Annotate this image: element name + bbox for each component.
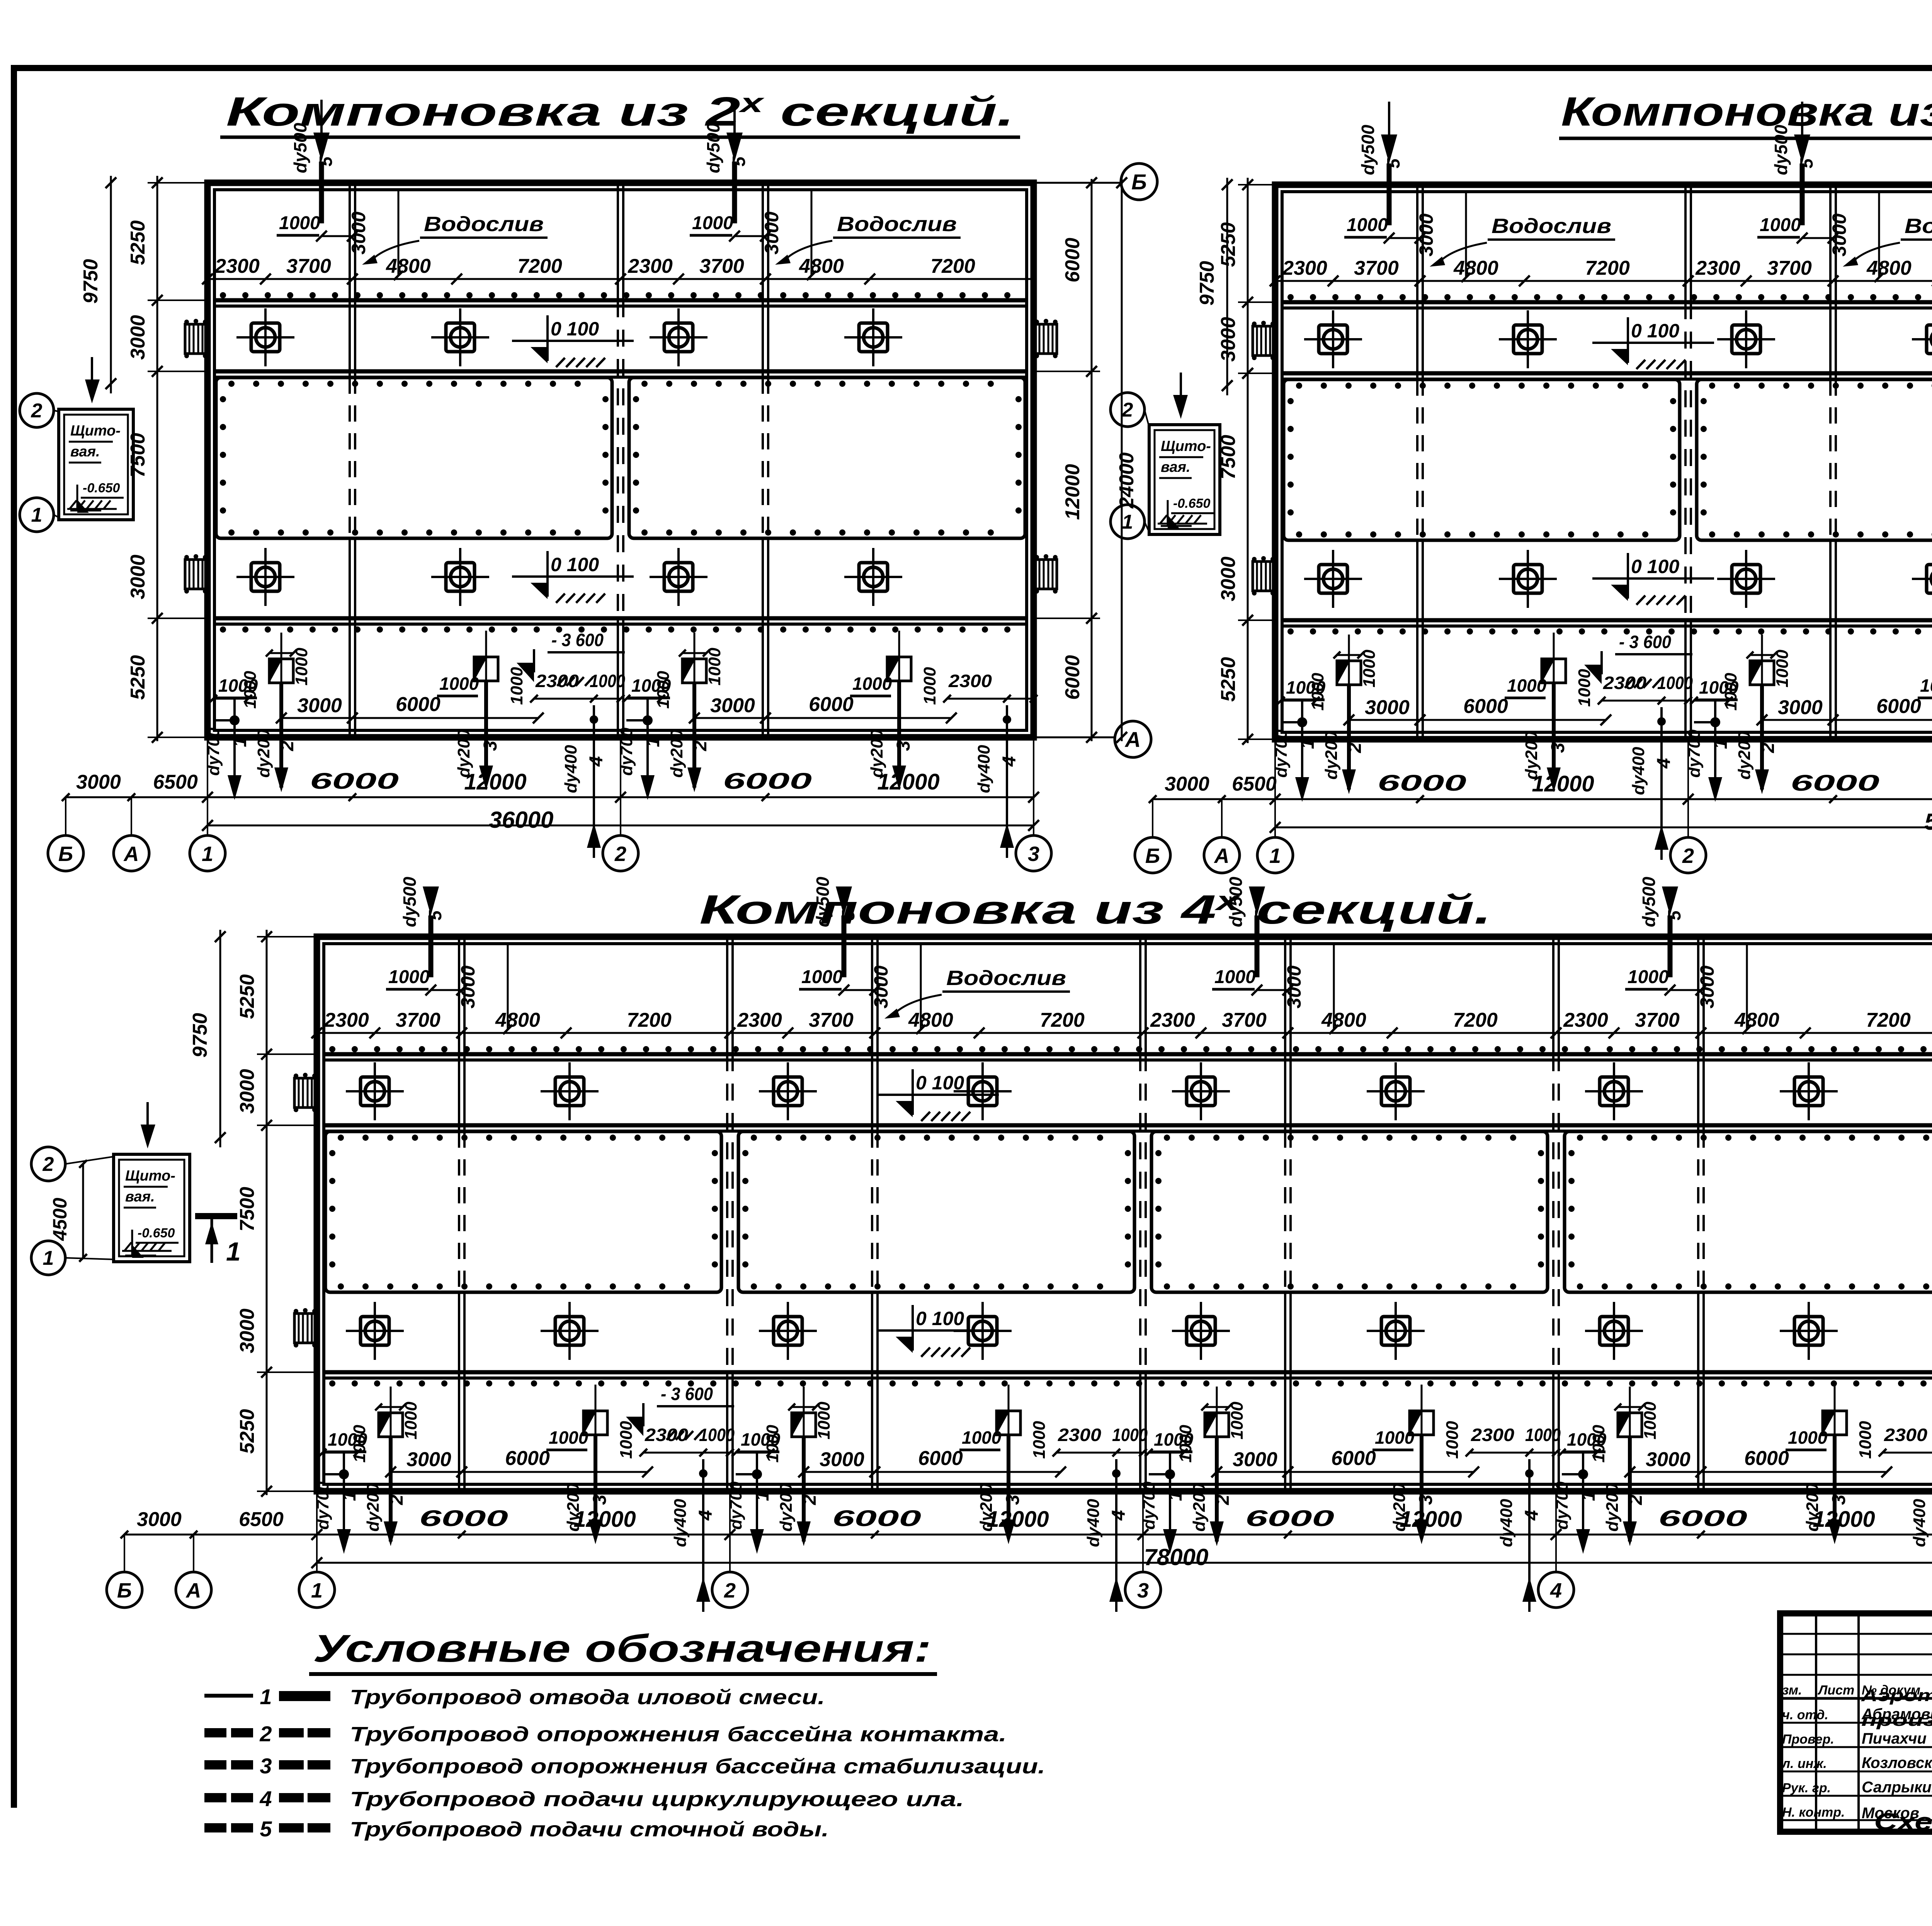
svg-text:2300: 2300: [1282, 257, 1327, 279]
svg-text:6000: 6000: [1876, 695, 1921, 718]
svg-text:5: 5: [1383, 158, 1403, 168]
svg-text:4800: 4800: [386, 255, 431, 277]
svg-text:1000: 1000: [962, 1427, 1002, 1448]
svg-text:3: 3: [1829, 1494, 1849, 1505]
svg-text:1000: 1000: [1030, 1421, 1049, 1459]
svg-text:3000: 3000: [761, 211, 782, 254]
svg-text:5250: 5250: [127, 220, 149, 265]
svg-text:производительностью 17÷40 тыс.: производительностью 17÷40 тыс. м: [1861, 1711, 1932, 1730]
svg-text:1: 1: [260, 1684, 272, 1709]
svg-text:Компоновка из 3х секций.: Компоновка из 3х секций.: [1561, 88, 1932, 134]
svg-text:3000: 3000: [236, 1308, 259, 1353]
svg-text:3000: 3000: [127, 315, 149, 360]
svg-text:3000: 3000: [236, 1069, 259, 1114]
svg-text:3000: 3000: [1217, 317, 1240, 362]
svg-text:1: 1: [311, 1579, 323, 1602]
svg-text:4: 4: [1109, 1510, 1129, 1521]
svg-text:3000: 3000: [127, 555, 149, 599]
svg-text:вая.: вая.: [125, 1189, 155, 1205]
svg-text:А: А: [185, 1579, 201, 1602]
svg-text:Схемы компоновок: Схемы компоновок: [1874, 1809, 1932, 1835]
svg-text:Трубопровод подачи циркулиру: Трубопровод подачи циркулирующего ила.: [350, 1788, 964, 1811]
svg-text:-0.650: -0.650: [1173, 496, 1210, 511]
svg-text:dy200: dy200: [1190, 1483, 1209, 1531]
svg-text:6000: 6000: [1791, 771, 1879, 796]
svg-text:4800: 4800: [1866, 257, 1912, 279]
svg-text:3700: 3700: [396, 1009, 440, 1031]
svg-text:2300: 2300: [1695, 257, 1740, 279]
svg-text:2: 2: [259, 1722, 272, 1746]
svg-text:3: 3: [480, 740, 501, 751]
svg-text:2300: 2300: [628, 255, 673, 277]
svg-text:1: 1: [1269, 844, 1281, 868]
svg-text:3: 3: [1416, 1494, 1436, 1505]
svg-text:2: 2: [1758, 742, 1778, 753]
svg-text:Лист: Лист: [1817, 1683, 1854, 1698]
svg-text:7200: 7200: [1040, 1009, 1085, 1031]
svg-text:1000: 1000: [549, 1427, 588, 1448]
svg-text:12000: 12000: [1061, 464, 1084, 520]
svg-text:9750: 9750: [189, 1013, 211, 1058]
svg-text:Н. контр.: Н. контр.: [1782, 1805, 1845, 1820]
svg-text:6000: 6000: [723, 769, 812, 794]
svg-text:1: 1: [1298, 739, 1318, 749]
svg-text:1000: 1000: [1628, 967, 1669, 987]
svg-text:Компоновка из 2х секций.: Компоновка из 2х секций.: [226, 88, 1014, 134]
svg-text:1000: 1000: [292, 648, 311, 686]
svg-text:dy200: dy200: [1735, 731, 1754, 779]
svg-text:3000: 3000: [820, 1448, 864, 1471]
svg-text:3000: 3000: [457, 965, 479, 1008]
svg-text:2: 2: [277, 740, 298, 751]
svg-text:1: 1: [752, 1491, 773, 1501]
svg-text:Водослив: Водослив: [837, 213, 957, 236]
svg-text:1000: 1000: [705, 648, 724, 686]
svg-text:1000: 1000: [439, 674, 479, 694]
svg-text:6000: 6000: [310, 769, 399, 794]
svg-text:dy500: dy500: [400, 876, 420, 927]
svg-text:1000: 1000: [507, 667, 526, 705]
svg-text:Щито-: Щито-: [70, 423, 121, 439]
svg-text:Трубопровод опорожнения басс: Трубопровод опорожнения бассейна контакт…: [350, 1723, 1007, 1746]
svg-text:3000: 3000: [297, 694, 342, 717]
svg-text:6500: 6500: [153, 771, 198, 793]
svg-text:3: 3: [1028, 842, 1039, 866]
svg-text:dy400: dy400: [975, 745, 993, 793]
svg-text:6000: 6000: [419, 1506, 508, 1531]
svg-text:2: 2: [43, 1153, 54, 1176]
svg-text:3000: 3000: [76, 771, 121, 793]
svg-text:7200: 7200: [627, 1009, 672, 1031]
svg-text:3700: 3700: [1222, 1009, 1267, 1031]
svg-text:- 3 600: - 3 600: [1619, 632, 1671, 652]
svg-text:2: 2: [1626, 1494, 1646, 1505]
svg-text:12000: 12000: [877, 769, 939, 795]
svg-text:3: 3: [1137, 1579, 1149, 1602]
svg-text:1000: 1000: [699, 1425, 735, 1445]
svg-text:Водослив: Водослив: [946, 966, 1066, 990]
svg-text:36000: 36000: [489, 807, 554, 833]
svg-text:5250: 5250: [127, 655, 149, 700]
svg-text:Водослив: Водослив: [424, 213, 544, 236]
svg-text:4: 4: [1654, 758, 1674, 769]
svg-text:7200: 7200: [1866, 1009, 1911, 1031]
svg-text:6000: 6000: [1463, 695, 1508, 718]
svg-text:6000: 6000: [1245, 1506, 1334, 1531]
svg-text:dy400: dy400: [1497, 1499, 1516, 1547]
svg-text:1: 1: [202, 842, 213, 866]
svg-text:А: А: [1214, 844, 1230, 868]
svg-text:1000: 1000: [1228, 1402, 1247, 1439]
svg-text:1000: 1000: [692, 213, 733, 233]
svg-text:1: 1: [643, 737, 663, 747]
svg-text:1000: 1000: [801, 967, 843, 987]
svg-text:3000: 3000: [870, 965, 892, 1008]
svg-text:Условные обозначения:: Условные обозначения:: [313, 1627, 931, 1670]
svg-text:1000: 1000: [654, 671, 673, 709]
svg-text:- 3 600: - 3 600: [661, 1384, 713, 1404]
svg-text:dy200: dy200: [667, 729, 686, 778]
svg-text:dy200: dy200: [364, 1483, 383, 1531]
svg-text:Водослив: Водослив: [1905, 214, 1932, 238]
svg-text:3: 3: [1548, 742, 1568, 753]
svg-text:3700: 3700: [1354, 257, 1399, 279]
svg-text:dy500: dy500: [1639, 876, 1659, 927]
svg-text:1000: 1000: [1920, 675, 1932, 696]
svg-text:1000: 1000: [350, 1425, 369, 1463]
svg-text:0 100: 0 100: [551, 318, 599, 340]
svg-text:6500: 6500: [239, 1508, 284, 1531]
svg-text:вая.: вая.: [70, 444, 100, 460]
svg-text:12000: 12000: [1813, 1507, 1875, 1532]
svg-text:2: 2: [1345, 742, 1365, 753]
svg-text:dy400: dy400: [1910, 1499, 1929, 1547]
svg-text:1000: 1000: [1641, 1402, 1660, 1439]
svg-text:7500: 7500: [127, 433, 149, 478]
svg-text:4500: 4500: [49, 1198, 71, 1241]
svg-text:2300: 2300: [1884, 1425, 1928, 1445]
svg-text:1000: 1000: [1443, 1421, 1462, 1459]
svg-text:3000: 3000: [137, 1508, 182, 1531]
svg-text:1: 1: [230, 737, 250, 747]
svg-text:3000: 3000: [1778, 696, 1823, 719]
svg-text:1000: 1000: [590, 671, 625, 691]
svg-text:6000: 6000: [832, 1506, 921, 1531]
svg-text:1000: 1000: [1176, 1425, 1195, 1463]
svg-text:5: 5: [1664, 910, 1684, 920]
svg-text:12000: 12000: [573, 1507, 636, 1532]
svg-text:зм.: зм.: [1782, 1683, 1802, 1698]
svg-text:3700: 3700: [699, 255, 744, 277]
svg-text:9750: 9750: [1196, 261, 1218, 306]
svg-text:3000: 3000: [1646, 1448, 1690, 1471]
svg-text:78000: 78000: [1144, 1544, 1209, 1570]
svg-text:4: 4: [259, 1786, 272, 1811]
svg-text:1000: 1000: [1575, 669, 1594, 707]
svg-text:3000: 3000: [710, 694, 755, 717]
svg-text:2: 2: [386, 1494, 407, 1505]
svg-text:2: 2: [31, 400, 43, 422]
svg-text:1000: 1000: [1347, 215, 1388, 235]
svg-text:Б: Б: [58, 842, 73, 866]
svg-text:1000: 1000: [241, 671, 260, 709]
svg-text:12000: 12000: [1400, 1507, 1462, 1532]
svg-text:1000: 1000: [401, 1402, 420, 1439]
svg-text:2: 2: [1682, 844, 1694, 868]
svg-text:Пичахчи: Пичахчи: [1862, 1730, 1927, 1747]
svg-text:5250: 5250: [236, 1409, 259, 1454]
svg-text:1000: 1000: [1525, 1425, 1561, 1445]
svg-text:9750: 9750: [80, 259, 102, 304]
svg-text:4800: 4800: [1321, 1009, 1366, 1031]
svg-text:12000: 12000: [1532, 771, 1594, 796]
svg-text:54000: 54000: [1925, 809, 1932, 835]
svg-text:0 100: 0 100: [1631, 556, 1679, 577]
svg-text:12000: 12000: [464, 769, 526, 795]
svg-text:dy200: dy200: [254, 729, 273, 778]
svg-text:6000: 6000: [1658, 1506, 1747, 1531]
svg-text:3000: 3000: [1217, 556, 1240, 601]
svg-text:1000: 1000: [1112, 1425, 1148, 1445]
svg-text:3000: 3000: [348, 211, 369, 254]
svg-text:Трубопровод отвода иловой с: Трубопровод отвода иловой смеси.: [350, 1686, 825, 1709]
svg-text:2300: 2300: [1471, 1425, 1515, 1445]
svg-text:4800: 4800: [1734, 1009, 1779, 1031]
svg-text:1000: 1000: [1788, 1427, 1828, 1448]
svg-text:Провер.: Провер.: [1782, 1732, 1834, 1747]
svg-text:Щито-: Щито-: [125, 1168, 175, 1184]
svg-text:dy400: dy400: [1084, 1499, 1103, 1547]
svg-text:5: 5: [260, 1817, 272, 1841]
svg-text:3000: 3000: [1233, 1448, 1277, 1471]
svg-text:dy500: dy500: [1358, 124, 1378, 175]
svg-text:2300: 2300: [1150, 1009, 1195, 1031]
svg-text:- 3 600: - 3 600: [551, 630, 604, 650]
svg-text:2300: 2300: [324, 1009, 369, 1031]
svg-text:6000: 6000: [918, 1447, 963, 1470]
svg-text:1000: 1000: [1360, 650, 1379, 687]
svg-text:6000: 6000: [1331, 1447, 1376, 1470]
svg-text:1000: 1000: [1760, 215, 1801, 235]
svg-text:6000: 6000: [1061, 238, 1084, 282]
svg-text:7500: 7500: [236, 1187, 259, 1232]
svg-text:2300: 2300: [1563, 1009, 1608, 1031]
svg-text:Б: Б: [1145, 844, 1160, 868]
svg-text:5250: 5250: [1217, 657, 1240, 702]
svg-text:0 100: 0 100: [1631, 320, 1679, 342]
svg-text:1: 1: [226, 1237, 241, 1266]
svg-text:2300: 2300: [1058, 1425, 1102, 1445]
svg-text:1: 1: [1711, 739, 1731, 749]
svg-text:dy200: dy200: [1603, 1483, 1622, 1531]
svg-text:1000: 1000: [920, 667, 939, 705]
svg-text:4: 4: [1550, 1579, 1562, 1602]
svg-text:5250: 5250: [1217, 222, 1240, 267]
svg-text:4: 4: [1522, 1510, 1542, 1521]
svg-text:Аэротенк контактной стабилиза: Аэротенк контактной стабилизации: [1861, 1686, 1932, 1705]
svg-text:5250: 5250: [236, 974, 259, 1019]
svg-text:6000: 6000: [505, 1447, 550, 1470]
svg-text:3700: 3700: [1767, 257, 1812, 279]
svg-text:4800: 4800: [495, 1009, 540, 1031]
svg-text:4800: 4800: [908, 1009, 953, 1031]
svg-text:2: 2: [799, 1494, 820, 1505]
svg-text:-0.650: -0.650: [83, 481, 120, 495]
svg-text:Компоновка из 4х секций.: Компоновка из 4х секций.: [699, 886, 1492, 932]
svg-text:1: 1: [43, 1247, 54, 1269]
svg-text:dy400: dy400: [561, 745, 580, 793]
svg-text:dy400: dy400: [671, 1499, 690, 1547]
svg-text:3000: 3000: [1365, 696, 1410, 719]
svg-text:24000: 24000: [1116, 453, 1138, 509]
svg-text:1000: 1000: [1214, 967, 1256, 987]
svg-text:3: 3: [260, 1754, 272, 1778]
svg-text:3700: 3700: [1635, 1009, 1680, 1031]
svg-text:0 100: 0 100: [916, 1072, 964, 1094]
svg-text:А: А: [1124, 727, 1141, 752]
svg-text:6000: 6000: [1378, 771, 1466, 796]
svg-text:5: 5: [316, 156, 336, 167]
svg-text:А: А: [123, 842, 139, 866]
svg-text:1000: 1000: [279, 213, 320, 233]
svg-text:Трубопровод опорожнения басс: Трубопровод опорожнения бассейна стабили…: [350, 1755, 1045, 1778]
svg-text:dy400: dy400: [1629, 747, 1648, 795]
svg-text:6000: 6000: [1061, 655, 1084, 700]
svg-text:3000: 3000: [1415, 213, 1437, 256]
svg-text:Б: Б: [1131, 170, 1147, 194]
svg-text:1000: 1000: [852, 674, 892, 694]
svg-text:1: 1: [31, 504, 43, 526]
svg-text:2: 2: [1213, 1494, 1233, 1505]
svg-text:1000: 1000: [617, 1421, 636, 1459]
svg-text:dy200: dy200: [777, 1483, 796, 1531]
svg-text:1: 1: [1122, 511, 1133, 533]
svg-text:Рук. гр.: Рук. гр.: [1782, 1781, 1831, 1795]
svg-text:6500: 6500: [1232, 773, 1277, 795]
svg-text:2300: 2300: [737, 1009, 782, 1031]
svg-text:Салрыкин: Салрыкин: [1862, 1779, 1932, 1796]
svg-text:1000: 1000: [1856, 1421, 1875, 1459]
svg-text:3000: 3000: [406, 1448, 451, 1471]
svg-text:7200: 7200: [930, 255, 975, 277]
svg-text:3700: 3700: [809, 1009, 854, 1031]
svg-text:1000: 1000: [1657, 673, 1693, 693]
svg-text:2: 2: [690, 740, 711, 751]
svg-text:3000: 3000: [1828, 213, 1850, 256]
svg-text:1: 1: [1578, 1491, 1599, 1501]
svg-text:6000: 6000: [396, 693, 440, 716]
svg-text:1: 1: [339, 1491, 360, 1501]
svg-text:4: 4: [586, 756, 607, 767]
svg-text:12000: 12000: [986, 1507, 1049, 1532]
svg-text:2: 2: [614, 842, 626, 866]
svg-text:5: 5: [1796, 158, 1816, 168]
svg-text:6000: 6000: [1744, 1447, 1789, 1470]
svg-text:3000: 3000: [1696, 965, 1718, 1008]
svg-text:3700: 3700: [286, 255, 331, 277]
svg-text:4: 4: [696, 1510, 716, 1521]
svg-text:1000: 1000: [1773, 650, 1792, 687]
svg-text:Козловская: Козловская: [1862, 1754, 1932, 1771]
svg-text:3: 3: [893, 740, 914, 751]
svg-text:5: 5: [425, 910, 445, 920]
svg-text:6000: 6000: [809, 693, 854, 716]
svg-text:л. инж.: л. инж.: [1781, 1756, 1827, 1771]
svg-text:7200: 7200: [1453, 1009, 1498, 1031]
svg-text:4800: 4800: [799, 255, 844, 277]
svg-text:-0.650: -0.650: [138, 1226, 175, 1240]
svg-text:7200: 7200: [517, 255, 562, 277]
svg-text:Щито-: Щито-: [1161, 438, 1211, 454]
svg-text:Б: Б: [117, 1579, 132, 1602]
svg-text:0 100: 0 100: [916, 1308, 964, 1329]
svg-text:1000: 1000: [1589, 1425, 1608, 1463]
svg-text:4800: 4800: [1453, 257, 1498, 279]
svg-text:3: 3: [590, 1494, 610, 1505]
svg-text:1000: 1000: [1308, 673, 1327, 711]
svg-text:2300: 2300: [948, 671, 992, 691]
svg-text:1000: 1000: [763, 1425, 782, 1463]
svg-text:3: 3: [1003, 1494, 1023, 1505]
svg-text:3000: 3000: [1283, 965, 1305, 1008]
svg-text:1000: 1000: [388, 967, 430, 987]
svg-text:2300: 2300: [214, 255, 260, 277]
svg-text:1000: 1000: [1507, 675, 1547, 696]
svg-text:Трубопровод подачи сточной: Трубопровод подачи сточной воды.: [350, 1818, 829, 1841]
svg-text:4: 4: [999, 756, 1020, 767]
svg-text:ч. отд.: ч. отд.: [1782, 1708, 1828, 1722]
svg-text:dy200: dy200: [1322, 731, 1341, 779]
svg-text:Водослив: Водослив: [1492, 214, 1611, 238]
svg-text:1000: 1000: [1721, 673, 1740, 711]
svg-text:7200: 7200: [1585, 257, 1630, 279]
svg-text:1: 1: [1165, 1491, 1186, 1501]
svg-text:2: 2: [1122, 399, 1133, 421]
svg-text:1000: 1000: [815, 1402, 833, 1439]
svg-text:3000: 3000: [1165, 773, 1209, 795]
svg-text:вая.: вая.: [1161, 459, 1190, 475]
svg-text:1000: 1000: [1375, 1427, 1415, 1448]
svg-text:0 100: 0 100: [551, 554, 599, 575]
svg-text:5: 5: [729, 156, 749, 167]
svg-text:2: 2: [724, 1579, 736, 1602]
